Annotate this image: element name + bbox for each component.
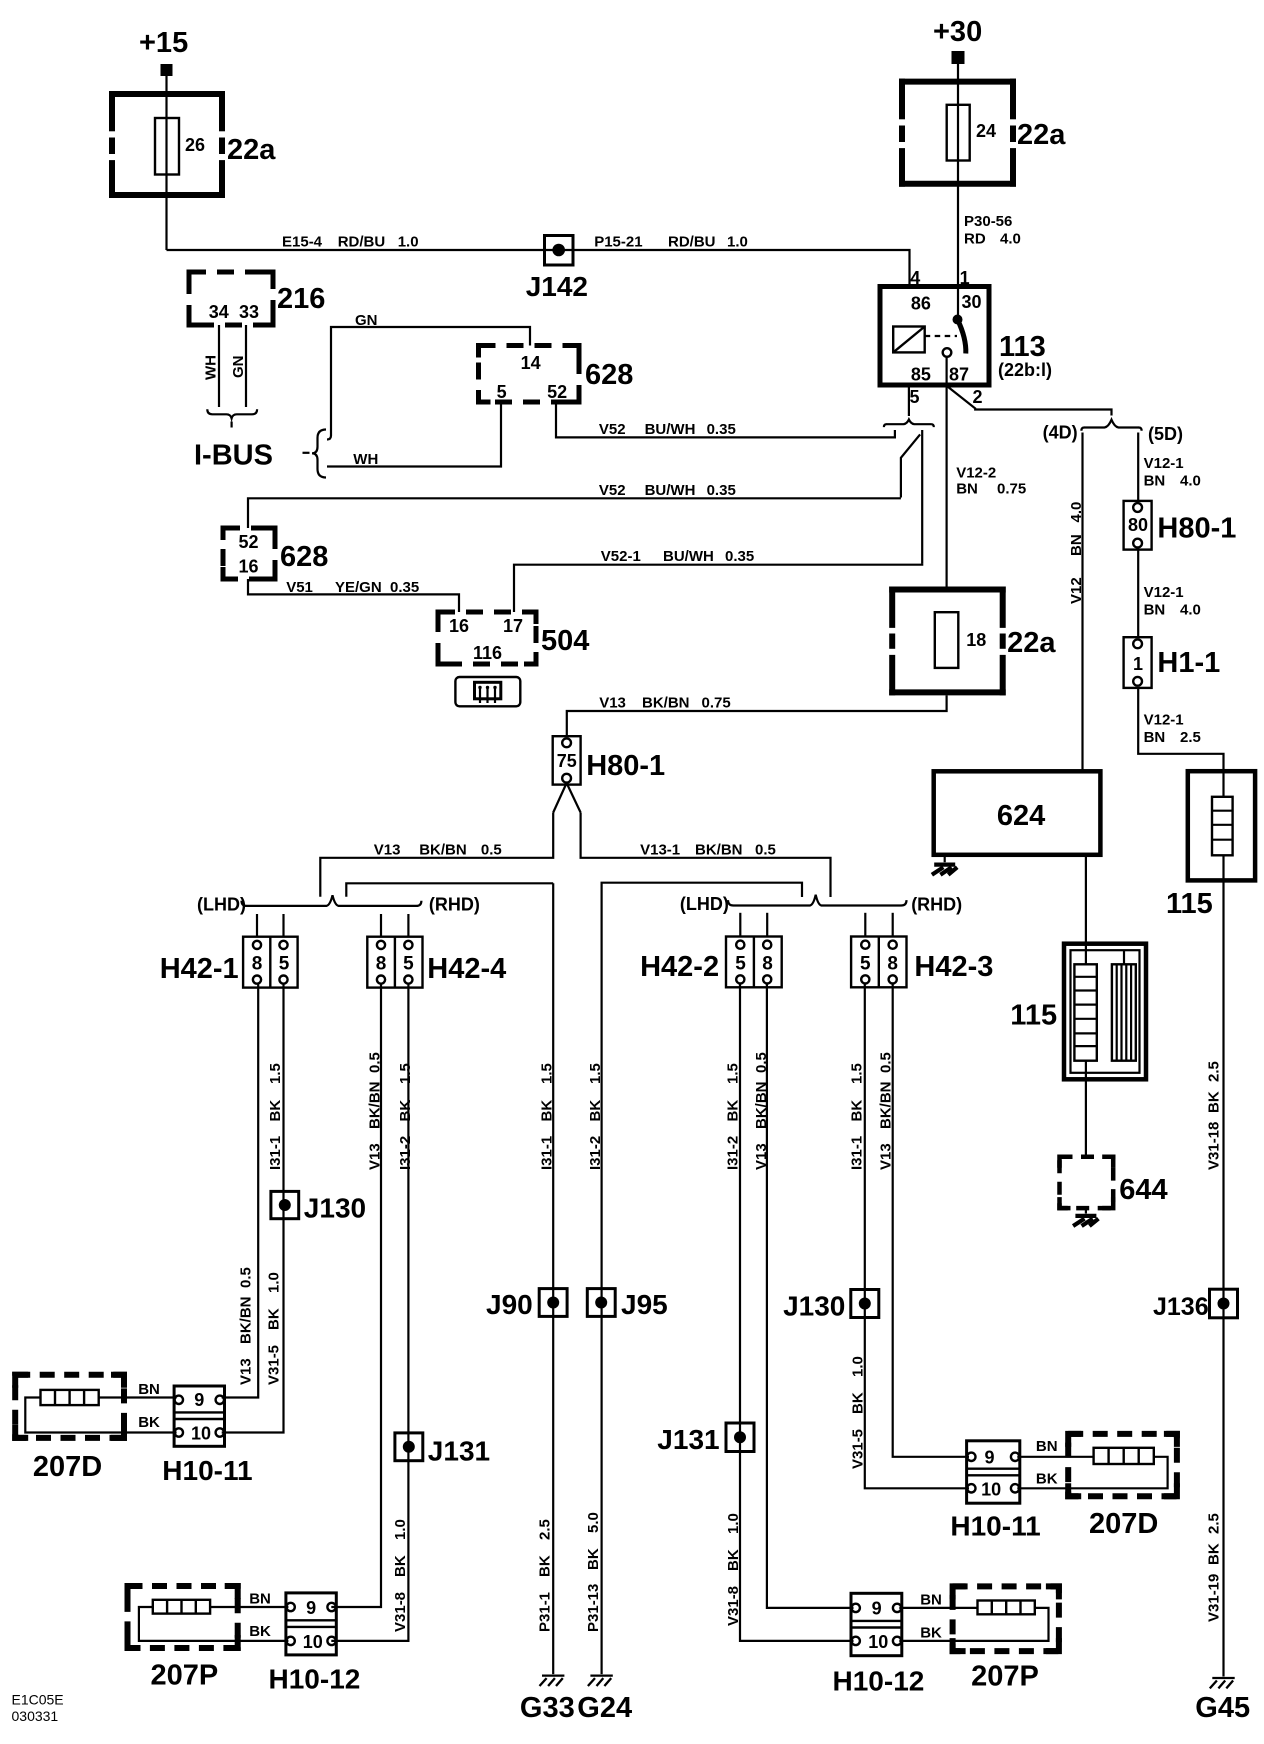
wire from pin 33: [245, 325, 247, 407]
svg-text:207D: 207D: [1089, 1508, 1158, 1540]
207D element: [41, 1390, 99, 1405]
svg-text:75: 75: [557, 751, 577, 771]
svg-text:(LHD): (LHD): [197, 895, 246, 915]
wire pin 30 to switch pivot: [957, 287, 959, 320]
svg-text:+30: +30: [933, 16, 982, 48]
svg-text:5: 5: [279, 953, 290, 974]
svg-text:9: 9: [194, 1390, 204, 1410]
svg-text:I31-2: I31-2: [725, 1136, 742, 1170]
svg-text:(RHD): (RHD): [911, 895, 962, 915]
wire H42-3 pin 8 down to H10-11 pin 9 (right): [893, 983, 969, 1457]
svg-text:V52: V52: [599, 421, 626, 438]
svg-text:10: 10: [868, 1632, 888, 1652]
splice J130: [271, 1191, 299, 1219]
wire V52 (lower) to 628 pin 52: [248, 498, 901, 528]
svg-text:22a: 22a: [1017, 119, 1066, 151]
wire J95 to G24: [600, 1316, 602, 1674]
svg-text:V12: V12: [1068, 577, 1085, 604]
svg-text:10: 10: [191, 1424, 211, 1444]
svg-text:(5D): (5D): [1148, 424, 1183, 444]
ground symbol G45: [1210, 1678, 1235, 1688]
svg-text:WH: WH: [203, 355, 220, 380]
svg-text:5: 5: [860, 953, 871, 974]
svg-text:22a: 22a: [227, 134, 276, 166]
svg-text:0.5: 0.5: [878, 1052, 895, 1073]
wire 207D BK loop to pin 10 (right): [1017, 1457, 1167, 1489]
wire H42-1 pin 5 down through J130: [282, 984, 284, 1192]
split diagonal left from fuse 75: [553, 783, 566, 813]
svg-text:V13-1: V13-1: [640, 842, 680, 859]
svg-text:9: 9: [872, 1599, 882, 1619]
svg-text:0.35: 0.35: [707, 482, 736, 499]
stub H42-3 pin 8: [892, 913, 894, 937]
connector 216 dashed box: [189, 272, 273, 325]
wire J90 link line: [346, 883, 553, 897]
wire H42-3 pin 5 down through J130 (right): [864, 983, 866, 1289]
svg-text:BK/BN: BK/BN: [419, 842, 467, 859]
split diagonal right from fuse 75: [567, 783, 581, 813]
svg-text:22a: 22a: [1007, 627, 1056, 659]
svg-text:J130: J130: [304, 1193, 366, 1224]
svg-text:V31-5: V31-5: [850, 1429, 867, 1469]
wire 5D variant down to H80-1: [1137, 433, 1139, 501]
svg-text:1: 1: [960, 268, 970, 288]
wire J130 to H10-11 pin 10 (right): [865, 1318, 969, 1489]
svg-text:1.5: 1.5: [267, 1063, 284, 1084]
svg-text:52: 52: [547, 382, 567, 402]
svg-text:V12-1: V12-1: [1144, 584, 1184, 601]
bracket 4D/5D left hook: [1081, 428, 1084, 431]
ground symbol (644): [1073, 1216, 1098, 1226]
svg-text:1.0: 1.0: [725, 1513, 742, 1534]
svg-text:207P: 207P: [151, 1660, 219, 1692]
svg-text:BK/BN: BK/BN: [367, 1082, 384, 1130]
I-BUS brace tick: [231, 422, 233, 428]
svg-text:BK/BN: BK/BN: [878, 1082, 895, 1130]
svg-text:BK: BK: [849, 1100, 866, 1122]
svg-text:J131: J131: [657, 1424, 719, 1455]
svg-text:I31-1: I31-1: [267, 1136, 284, 1170]
wire J130 to H10-11 pin 10: [222, 1219, 284, 1433]
wire J90 vertical: [552, 883, 554, 1288]
splice J131: [395, 1433, 423, 1462]
svg-text:113: 113: [999, 331, 1046, 363]
svg-text:24: 24: [976, 121, 996, 141]
svg-text:BK: BK: [850, 1392, 867, 1414]
svg-text:2.5: 2.5: [1205, 1513, 1222, 1534]
connector H42-1: [243, 937, 298, 988]
svg-text:10: 10: [981, 1480, 1001, 1500]
svg-text:J90: J90: [486, 1289, 533, 1320]
node +15 terminal square: [161, 64, 173, 76]
svg-text:5.0: 5.0: [585, 1512, 602, 1533]
svg-text:BN: BN: [1068, 534, 1085, 556]
svg-text:H42-1: H42-1: [160, 953, 239, 985]
fuse 26 symbol: [155, 118, 179, 175]
svg-text:H80-1: H80-1: [1157, 513, 1236, 545]
svg-text:BK: BK: [585, 1548, 602, 1570]
resistor element: [1212, 797, 1233, 856]
svg-text:G45: G45: [1195, 1692, 1250, 1724]
svg-text:17: 17: [503, 616, 523, 636]
svg-text:2.5: 2.5: [1180, 729, 1201, 746]
svg-text:207D: 207D: [33, 1451, 102, 1483]
wire main +15 feed E15-4: [167, 250, 910, 287]
fuse box 22a (fuse 18) dashed panel: [889, 587, 1006, 696]
svg-text:BN: BN: [1144, 602, 1166, 619]
wire 207D BN from pin 9 (right): [1017, 1456, 1093, 1458]
I-BUS tap dash: [303, 452, 310, 454]
wire J131 to H10-12 pin 10 (right): [740, 1452, 854, 1641]
ground symbol G24: [588, 1676, 613, 1686]
svg-text:BN: BN: [1144, 473, 1166, 490]
ground stub under 644: [1085, 1208, 1087, 1213]
svg-text:I31-2: I31-2: [587, 1136, 604, 1170]
svg-text:V51: V51: [286, 579, 313, 596]
svg-text:V12-1: V12-1: [1144, 712, 1184, 729]
svg-text:RD/BU: RD/BU: [338, 234, 386, 251]
svg-text:V13: V13: [374, 842, 401, 859]
svg-text:BK: BK: [138, 1414, 160, 1431]
wire 207D BK loop to pin 10: [25, 1398, 176, 1433]
svg-text:H80-1: H80-1: [586, 750, 665, 782]
svg-text:030331: 030331: [12, 1708, 59, 1724]
svg-text:V31-8: V31-8: [725, 1586, 742, 1626]
svg-text:I31-1: I31-1: [539, 1136, 556, 1170]
wire 115 to 644: [1085, 1061, 1087, 1157]
stub H42-1 pin 8: [256, 914, 258, 937]
stub H42-4 pin 8: [380, 914, 382, 937]
option stub left (V52 end tick): [894, 430, 896, 439]
svg-text:10: 10: [303, 1632, 323, 1652]
heated seat element 207D dashed box (right): [1068, 1434, 1177, 1496]
fuse holder H1-1 (fuse 1): [1124, 637, 1152, 688]
fuse box 22a (fuse 24) dashed panel: [899, 79, 1016, 187]
splice J131 (right): [726, 1423, 754, 1452]
svg-text:5: 5: [909, 387, 919, 407]
splice J142: [545, 236, 574, 266]
svg-text:BN: BN: [1036, 1438, 1058, 1455]
svg-text:J130: J130: [783, 1291, 845, 1322]
wire V13 left branch: [320, 813, 553, 897]
svg-text:2.5: 2.5: [1205, 1061, 1222, 1082]
wire WH to 628 pin 5: [327, 402, 501, 467]
svg-text:G33: G33: [520, 1692, 575, 1724]
svg-text:BK: BK: [587, 1100, 604, 1122]
stub H42-4 pin 5: [407, 914, 409, 937]
svg-text:V31-19: V31-19: [1205, 1574, 1222, 1622]
svg-text:BK: BK: [392, 1555, 409, 1577]
wire 207P BK loop to pin 10 (right): [899, 1608, 1048, 1641]
svg-text:G24: G24: [577, 1692, 632, 1724]
svg-text:BK: BK: [266, 1308, 283, 1330]
svg-text:H42-4: H42-4: [427, 953, 506, 985]
svg-text:BK/BN: BK/BN: [642, 695, 690, 712]
svg-text:1.5: 1.5: [725, 1063, 742, 1084]
svg-text:H10-12: H10-12: [833, 1665, 925, 1696]
svg-text:BK: BK: [267, 1100, 284, 1122]
svg-text:BK: BK: [920, 1625, 942, 1642]
heated seat element 207P dashed box: [128, 1586, 238, 1648]
stub H42-2 pin 8: [766, 913, 768, 937]
svg-text:V31-5: V31-5: [266, 1345, 283, 1385]
wire relay pin 2 branch to 4D/5D split: [948, 387, 1112, 416]
fuse holder H80-1 (fuse 75): [553, 736, 581, 784]
blower motor 115 box: [1064, 944, 1146, 1080]
svg-text:4.0: 4.0: [1068, 502, 1085, 523]
svg-text:0.35: 0.35: [725, 548, 754, 565]
svg-text:BN: BN: [249, 1591, 271, 1608]
I-BUS tap brace: [312, 430, 326, 478]
svg-text:H42-3: H42-3: [914, 951, 993, 983]
splice J136: [1210, 1289, 1238, 1318]
svg-text:I31-1: I31-1: [849, 1136, 866, 1170]
option stub right: [921, 430, 923, 564]
svg-text:5: 5: [497, 382, 507, 402]
svg-text:BU/WH: BU/WH: [663, 548, 714, 565]
svg-text:BK: BK: [725, 1549, 742, 1571]
connector H10-12 (left): [286, 1593, 336, 1655]
svg-text:1.0: 1.0: [850, 1356, 867, 1377]
svg-text:(22b:l): (22b:l): [998, 360, 1052, 380]
variant bracket left hook: [884, 424, 887, 427]
svg-text:P15-21: P15-21: [594, 234, 642, 251]
resistor pack 115 box: [1188, 771, 1255, 880]
svg-text:H10-11: H10-11: [950, 1511, 1040, 1542]
wire V51 from 628 pin 16 to 504 pin 16: [248, 579, 459, 612]
svg-text:BK: BK: [537, 1555, 554, 1577]
svg-text:V13: V13: [753, 1143, 770, 1170]
wire J131 to H10-12 pin 10: [331, 1461, 408, 1641]
svg-text:18: 18: [966, 630, 986, 650]
svg-text:1.0: 1.0: [398, 234, 419, 251]
svg-text:4.0: 4.0: [1000, 231, 1021, 248]
svg-text:0.5: 0.5: [753, 1052, 770, 1073]
relay switch arm: [958, 320, 966, 354]
svg-text:1.5: 1.5: [849, 1063, 866, 1084]
svg-text:YE/GN: YE/GN: [335, 579, 382, 596]
connector 628 dashed box (pins 52/16): [223, 528, 275, 579]
variant selector diagonal: [901, 434, 920, 497]
svg-text:16: 16: [238, 557, 258, 577]
wire resistor 115 down to G45: [1222, 855, 1224, 1289]
bracket 4D/5D right hook: [1139, 428, 1142, 431]
svg-text:V13: V13: [599, 695, 626, 712]
svg-text:J136: J136: [1153, 1293, 1209, 1321]
stub H42-1 pin 5: [282, 914, 284, 937]
svg-text:V13: V13: [367, 1143, 384, 1170]
207P element (right): [978, 1601, 1035, 1615]
wire J136 to G45: [1222, 1318, 1224, 1677]
svg-text:5: 5: [735, 953, 746, 974]
svg-text:0.5: 0.5: [367, 1052, 384, 1073]
svg-text:RD/BU: RD/BU: [668, 234, 716, 251]
svg-text:GN: GN: [355, 312, 378, 329]
fuse 24 symbol: [947, 105, 970, 161]
heated seat element 207D dashed box: [15, 1375, 124, 1438]
svg-text:H10-11: H10-11: [162, 1455, 252, 1486]
wire from +30 through fuse 24 to relay pin 30: [957, 64, 959, 287]
svg-text:644: 644: [1119, 1174, 1167, 1206]
svg-text:BU/WH: BU/WH: [645, 482, 696, 499]
svg-text:504: 504: [541, 625, 589, 657]
svg-text:V52: V52: [599, 482, 626, 499]
svg-text:9: 9: [306, 1598, 316, 1618]
svg-text:207P: 207P: [971, 1661, 1039, 1693]
svg-text:628: 628: [280, 541, 328, 573]
I-BUS under-brace: [207, 409, 257, 418]
svg-text:4: 4: [910, 268, 920, 288]
svg-text:V31-18: V31-18: [1205, 1122, 1222, 1170]
svg-text:9: 9: [984, 1448, 994, 1468]
ECU 624 box: [934, 771, 1101, 855]
svg-text:0.75: 0.75: [702, 695, 731, 712]
relay contact circle 87: [943, 348, 952, 357]
svg-text:8: 8: [376, 953, 387, 974]
svg-text:BK: BK: [249, 1623, 271, 1640]
svg-text:BK/BN: BK/BN: [238, 1297, 255, 1345]
svg-text:BN: BN: [956, 481, 978, 498]
wire 207P BN to pin 9: [210, 1606, 288, 1608]
svg-text:1: 1: [1133, 654, 1143, 674]
connector H42-4: [367, 937, 422, 988]
svg-text:BU/WH: BU/WH: [645, 421, 696, 438]
svg-text:34: 34: [209, 302, 229, 322]
svg-text:P31-1: P31-1: [537, 1592, 554, 1632]
svg-text:52: 52: [238, 532, 258, 552]
svg-text:BK: BK: [1205, 1091, 1222, 1113]
svg-text:2: 2: [972, 387, 982, 407]
heated seat element 207P dashed box (right): [953, 1586, 1059, 1651]
svg-text:BN: BN: [138, 1381, 160, 1398]
wire H42-4 pin 5 down through J131: [407, 984, 409, 1433]
svg-text:I31-2: I31-2: [397, 1136, 414, 1170]
svg-text:(4D): (4D): [1043, 423, 1078, 443]
connector 644 dashed box: [1060, 1157, 1114, 1208]
svg-text:16: 16: [449, 616, 469, 636]
svg-text:0.35: 0.35: [707, 421, 736, 438]
fuse box 22a (fuse 26) dashed panel: [109, 91, 225, 198]
svg-text:V31-8: V31-8: [392, 1592, 409, 1632]
connector H10-11 (right): [967, 1441, 1020, 1503]
svg-text:RD: RD: [964, 231, 986, 248]
svg-text:4.0: 4.0: [1180, 602, 1201, 619]
svg-text:8: 8: [762, 953, 773, 974]
svg-text:1.0: 1.0: [266, 1272, 283, 1293]
svg-text:+15: +15: [139, 27, 188, 59]
svg-text:2.5: 2.5: [537, 1519, 554, 1540]
svg-text:V13: V13: [878, 1143, 895, 1170]
svg-text:WH: WH: [353, 451, 378, 468]
svg-text:0.5: 0.5: [755, 842, 776, 859]
svg-text:E1C05E: E1C05E: [12, 1692, 64, 1708]
svg-text:33: 33: [239, 302, 259, 322]
svg-text:5: 5: [403, 953, 414, 974]
svg-text:0.5: 0.5: [238, 1267, 255, 1288]
connector 628 dashed box (pins 14/5/52): [479, 346, 580, 403]
wire V52 from 628 pin 52 to relay junction: [556, 402, 895, 437]
relay switch pivot dot: [953, 315, 963, 325]
wire 4D variant down to 624: [1081, 433, 1083, 772]
207D element (right): [1094, 1448, 1154, 1464]
svg-text:0.5: 0.5: [481, 842, 502, 859]
svg-text:E15-4: E15-4: [282, 234, 323, 251]
fuse 18 symbol: [935, 612, 959, 668]
ground stub under 624: [944, 855, 946, 862]
svg-text:V13: V13: [238, 1358, 255, 1385]
relay coil: [893, 327, 925, 353]
svg-text:(LHD): (LHD): [680, 894, 729, 914]
svg-text:H1-1: H1-1: [1157, 647, 1220, 679]
svg-text:216: 216: [277, 283, 325, 315]
svg-text:BK: BK: [397, 1100, 414, 1122]
svg-text:H42-2: H42-2: [640, 951, 719, 983]
svg-text:26: 26: [185, 135, 205, 155]
wire H42-2 pin 8 down to H10-12 pin 9 (right): [767, 983, 854, 1608]
wire relay pin 87 down to fuse 18: [945, 357, 947, 587]
fuse holder H80-1 (fuse 80): [1124, 501, 1152, 550]
svg-text:V52-1: V52-1: [601, 548, 641, 565]
svg-text:85: 85: [911, 365, 931, 385]
svg-text:V12-1: V12-1: [1144, 455, 1184, 472]
variant bracket right hook: [931, 424, 934, 427]
wire from fuse 18 to V13 feed: [567, 695, 947, 736]
svg-text:(RHD): (RHD): [429, 895, 480, 915]
stub H42-2 pin 5: [739, 913, 741, 937]
svg-text:BK/BN: BK/BN: [695, 842, 743, 859]
wire V52-1 to 504 pin 17: [514, 564, 922, 612]
ACC control panel icon: [455, 677, 520, 706]
splice J90: [539, 1288, 567, 1317]
svg-text:BK: BK: [539, 1100, 556, 1122]
svg-text:1.5: 1.5: [397, 1063, 414, 1084]
svg-text:116: 116: [473, 643, 502, 663]
svg-text:115: 115: [1010, 1000, 1057, 1032]
wire 624 to blower 115: [1085, 855, 1087, 965]
svg-text:P30-56: P30-56: [964, 213, 1012, 230]
blower resistor element: [1074, 964, 1096, 1060]
wire H42-1 pin 8 down to H10-11 pin 9: [222, 984, 259, 1398]
svg-text:BN: BN: [1144, 729, 1166, 746]
svg-text:BK/BN: BK/BN: [753, 1082, 770, 1130]
wire from +15 through fuse 26 down to main feed: [165, 76, 167, 250]
svg-text:J95: J95: [621, 1289, 668, 1320]
node +30 terminal square: [952, 51, 965, 64]
svg-text:BN: BN: [920, 1592, 942, 1609]
207P element: [153, 1600, 210, 1614]
svg-text:J131: J131: [428, 1436, 490, 1467]
connector H10-11 (left): [174, 1386, 224, 1446]
svg-text:86: 86: [911, 294, 931, 314]
svg-text:BK: BK: [725, 1100, 742, 1122]
wire 207D BN to pin 9: [99, 1396, 177, 1398]
variant bracket LHD/RHD (right group): [728, 895, 907, 906]
svg-text:624: 624: [997, 800, 1045, 832]
svg-text:GN: GN: [230, 356, 247, 379]
svg-text:I-BUS: I-BUS: [194, 440, 273, 472]
wire 207P BN from pin 9 (right): [899, 1607, 977, 1609]
blower motor armature element: [1112, 950, 1136, 1060]
wire H80-1 to H1-1: [1137, 550, 1139, 638]
wire J90 to G33: [552, 1316, 554, 1674]
connector H10-12 (right): [851, 1593, 902, 1655]
svg-text:BK: BK: [1036, 1471, 1058, 1488]
svg-text:8: 8: [887, 953, 898, 974]
svg-text:P31-13: P31-13: [585, 1584, 602, 1632]
svg-text:628: 628: [585, 359, 633, 391]
wire V13-1 right branch: [581, 813, 831, 898]
svg-text:1.5: 1.5: [587, 1063, 604, 1084]
